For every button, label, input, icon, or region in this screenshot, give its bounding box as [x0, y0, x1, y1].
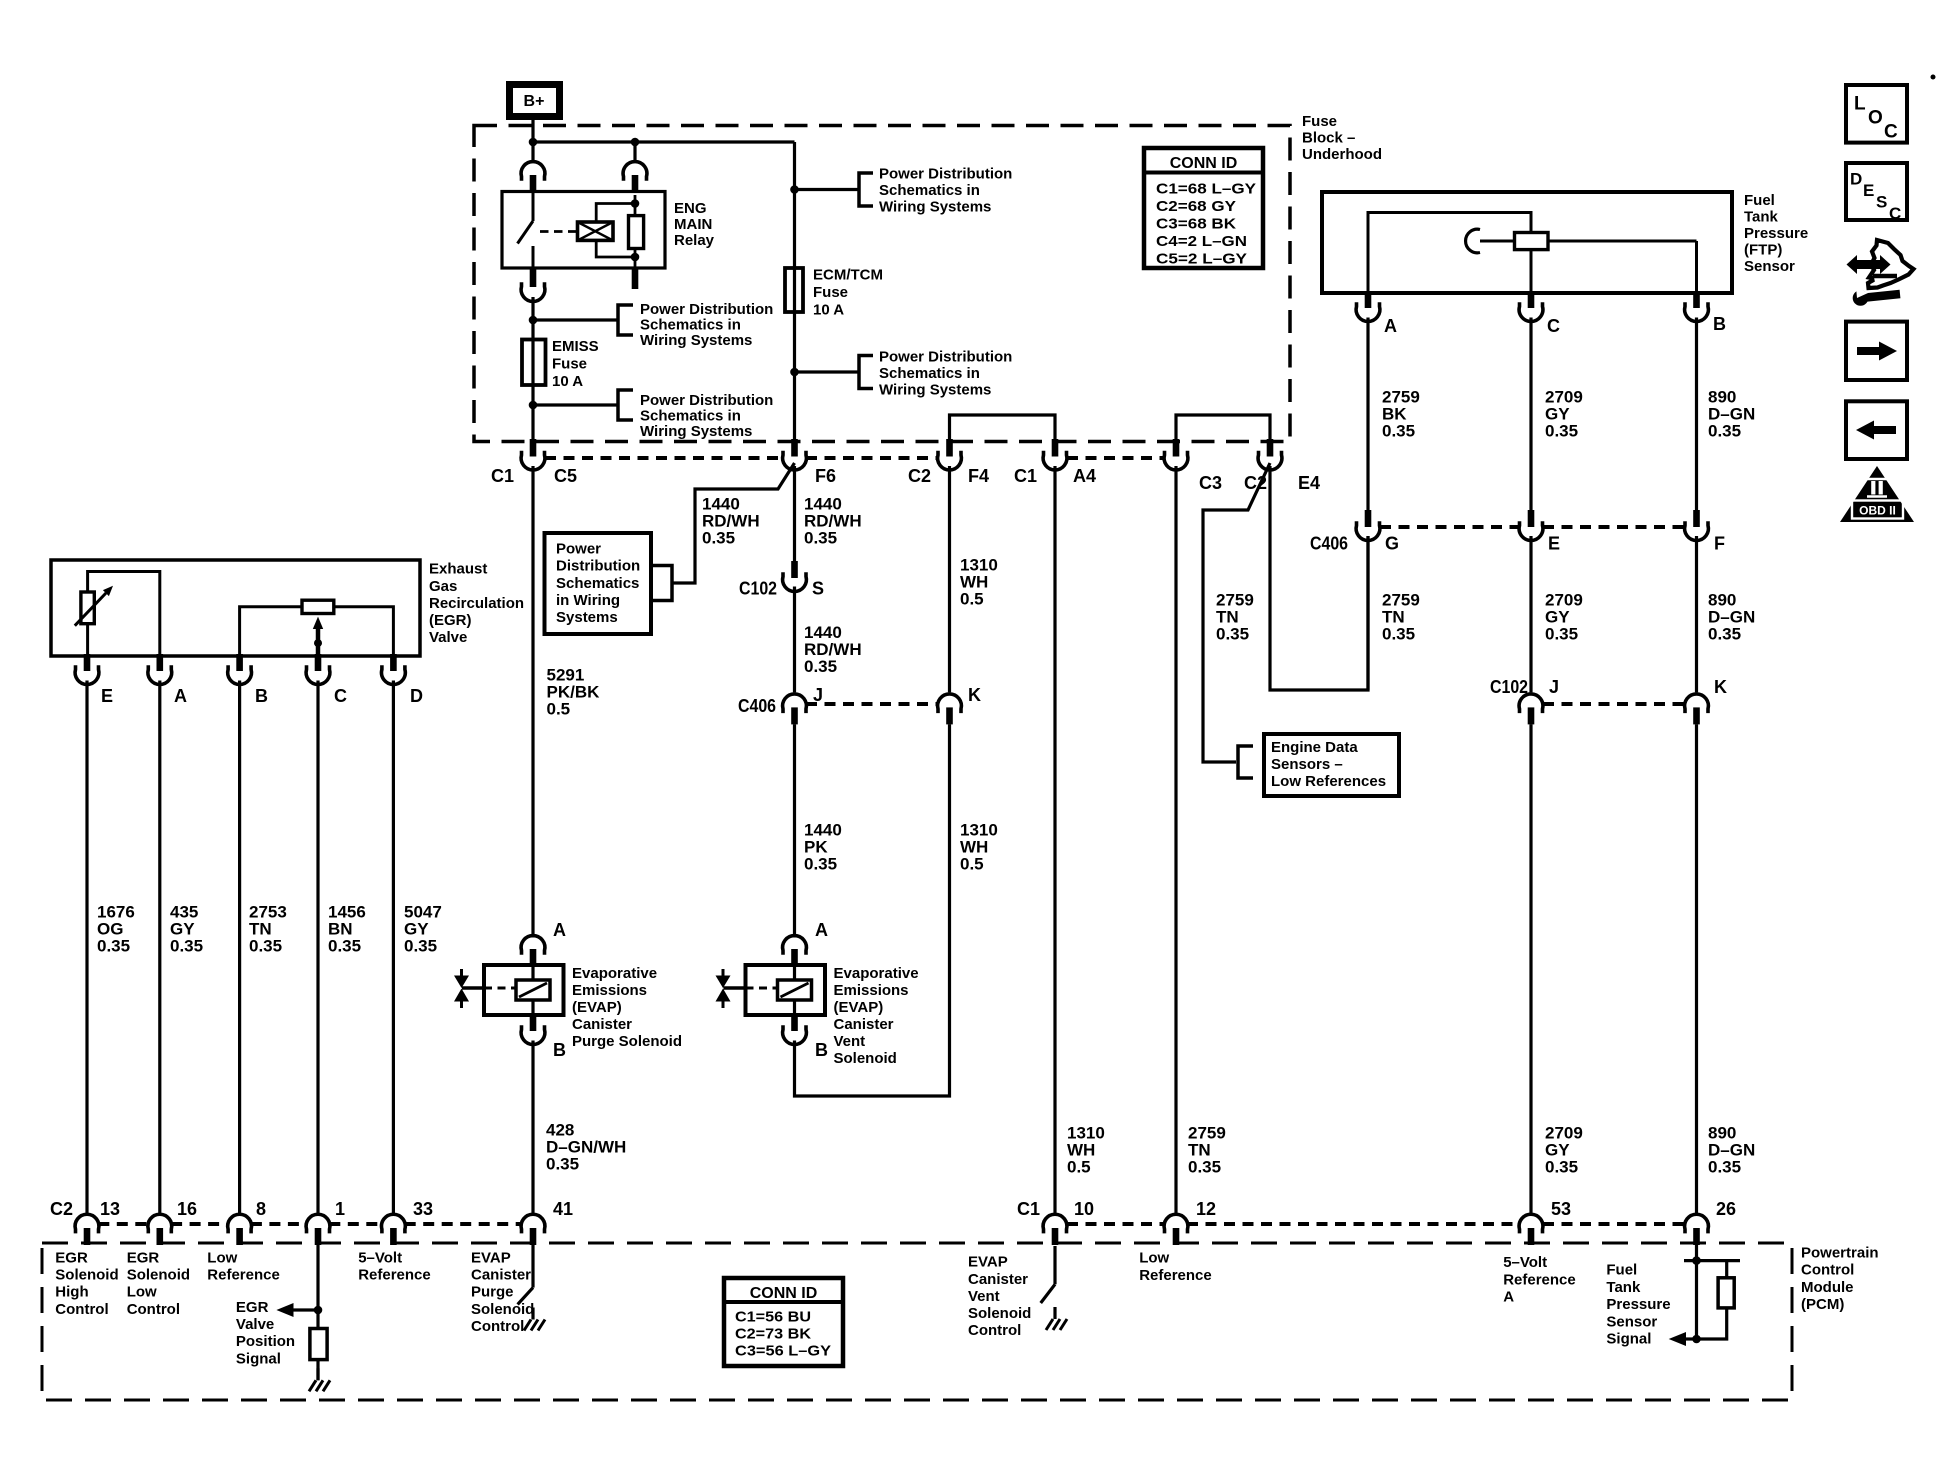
svg-text:Solenoid: Solenoid	[834, 1050, 897, 1067]
svg-text:0.35: 0.35	[1216, 624, 1249, 643]
svg-text:C2=68 GY: C2=68 GY	[1156, 198, 1236, 215]
svg-text:0.5: 0.5	[960, 589, 984, 608]
svg-text:Signal: Signal	[236, 1350, 281, 1367]
svg-text:C2: C2	[50, 1199, 73, 1219]
svg-text:Purge: Purge	[471, 1284, 514, 1301]
svg-text:C5=2 L–GY: C5=2 L–GY	[1156, 251, 1247, 268]
svg-text:C406: C406	[738, 696, 776, 716]
svg-text:K: K	[968, 685, 981, 705]
svg-text:ECM/TCM: ECM/TCM	[813, 266, 883, 283]
svg-text:Module: Module	[1801, 1279, 1854, 1296]
svg-text:Fuse: Fuse	[813, 284, 848, 301]
svg-text:J: J	[1549, 677, 1559, 697]
svg-text:Schematics in: Schematics in	[640, 407, 741, 424]
svg-text:Reference: Reference	[358, 1267, 431, 1284]
svg-text:ENG: ENG	[674, 200, 707, 217]
svg-text:C1: C1	[1017, 1199, 1040, 1219]
svg-text:F6: F6	[815, 466, 836, 486]
svg-text:C: C	[1889, 204, 1901, 223]
svg-text:0.35: 0.35	[1382, 421, 1415, 440]
svg-text:10 A: 10 A	[552, 373, 583, 390]
svg-text:(FTP): (FTP)	[1744, 241, 1782, 258]
svg-text:0.5: 0.5	[547, 700, 571, 719]
svg-text:A: A	[174, 686, 187, 706]
svg-text:A: A	[553, 920, 566, 940]
svg-text:Recirculation: Recirculation	[429, 595, 524, 612]
svg-text:Control: Control	[968, 1322, 1021, 1339]
svg-text:Engine Data: Engine Data	[1271, 739, 1358, 756]
svg-text:Power Distribution: Power Distribution	[879, 166, 1012, 183]
svg-text:G: G	[1385, 534, 1399, 554]
svg-text:EMISS: EMISS	[552, 338, 599, 355]
svg-text:0.35: 0.35	[404, 936, 437, 955]
svg-text:5–Volt: 5–Volt	[1503, 1254, 1547, 1271]
svg-text:Vent: Vent	[834, 1033, 866, 1050]
svg-text:C: C	[334, 686, 347, 706]
svg-text:(PCM): (PCM)	[1801, 1296, 1844, 1313]
svg-text:0.35: 0.35	[1545, 421, 1578, 440]
svg-text:C: C	[1884, 122, 1898, 143]
svg-text:A: A	[815, 920, 828, 940]
svg-text:OBD II: OBD II	[1859, 504, 1896, 518]
svg-text:C5: C5	[554, 466, 577, 486]
svg-text:0.35: 0.35	[170, 936, 203, 955]
svg-text:16: 16	[177, 1199, 197, 1219]
svg-text:Sensor: Sensor	[1606, 1313, 1657, 1330]
svg-text:B: B	[255, 686, 268, 706]
svg-text:(EVAP): (EVAP)	[572, 999, 622, 1016]
svg-text:1: 1	[335, 1199, 345, 1219]
svg-text:Pressure: Pressure	[1744, 225, 1808, 242]
svg-text:Canister: Canister	[471, 1267, 531, 1284]
svg-text:Schematics in: Schematics in	[879, 182, 980, 199]
svg-text:0.35: 0.35	[702, 528, 735, 547]
svg-text:EGR: EGR	[127, 1249, 160, 1266]
svg-text:Wiring Systems: Wiring Systems	[879, 199, 991, 216]
svg-text:Wiring Systems: Wiring Systems	[640, 332, 752, 349]
svg-text:EGR: EGR	[236, 1299, 269, 1316]
svg-text:0.35: 0.35	[804, 657, 837, 676]
svg-text:26: 26	[1716, 1199, 1736, 1219]
svg-text:C102: C102	[1490, 677, 1528, 697]
svg-text:0.35: 0.35	[1545, 1157, 1578, 1176]
svg-text:C1=68 L–GY: C1=68 L–GY	[1156, 181, 1256, 198]
svg-text:CONN ID: CONN ID	[750, 1285, 818, 1302]
svg-text:0.35: 0.35	[1708, 1157, 1741, 1176]
svg-text:53: 53	[1551, 1199, 1571, 1219]
svg-text:Fuel: Fuel	[1744, 192, 1775, 209]
svg-text:EVAP: EVAP	[471, 1249, 511, 1266]
svg-text:0.5: 0.5	[1067, 1157, 1091, 1176]
svg-text:Power: Power	[556, 541, 601, 558]
svg-text:Emissions: Emissions	[834, 982, 909, 999]
svg-text:Control: Control	[1801, 1262, 1854, 1279]
svg-text:Power Distribution: Power Distribution	[640, 392, 773, 409]
svg-text:10 A: 10 A	[813, 301, 844, 318]
svg-text:0.35: 0.35	[1708, 421, 1741, 440]
svg-text:(EVAP): (EVAP)	[834, 999, 884, 1016]
svg-text:S: S	[812, 579, 824, 599]
svg-text:E: E	[101, 686, 113, 706]
svg-text:Vent: Vent	[968, 1288, 1000, 1305]
svg-text:F: F	[1714, 534, 1725, 554]
svg-text:Wiring Systems: Wiring Systems	[879, 381, 991, 398]
svg-text:Evaporative: Evaporative	[834, 965, 919, 982]
svg-text:Evaporative: Evaporative	[572, 965, 657, 982]
svg-text:Tank: Tank	[1744, 208, 1779, 225]
svg-text:Purge Solenoid: Purge Solenoid	[572, 1033, 682, 1050]
svg-text:Power Distribution: Power Distribution	[879, 348, 1012, 365]
svg-text:12: 12	[1196, 1199, 1216, 1219]
svg-text:Reference: Reference	[207, 1267, 280, 1284]
svg-text:Canister: Canister	[834, 1016, 894, 1033]
svg-text:0.35: 0.35	[546, 1154, 579, 1173]
svg-text:0.35: 0.35	[97, 936, 130, 955]
svg-text:Tank: Tank	[1606, 1279, 1641, 1296]
svg-text:Low: Low	[1139, 1250, 1169, 1267]
svg-text:Solenoid: Solenoid	[471, 1301, 534, 1318]
svg-text:Emissions: Emissions	[572, 982, 647, 999]
svg-text:E4: E4	[1298, 473, 1320, 493]
svg-text:Schematics in: Schematics in	[879, 365, 980, 382]
svg-text:Pressure: Pressure	[1606, 1296, 1670, 1313]
svg-text:0.35: 0.35	[1708, 624, 1741, 643]
svg-text:Schematics in: Schematics in	[640, 317, 741, 334]
svg-text:L: L	[1854, 94, 1866, 115]
svg-text:Power Distribution: Power Distribution	[640, 301, 773, 318]
svg-text:B: B	[1713, 314, 1726, 334]
svg-text:0.35: 0.35	[1382, 624, 1415, 643]
svg-text:A4: A4	[1073, 466, 1096, 486]
svg-text:Position: Position	[236, 1333, 295, 1350]
svg-text:0.35: 0.35	[804, 528, 837, 547]
svg-text:Reference: Reference	[1139, 1267, 1212, 1284]
svg-text:MAIN: MAIN	[674, 216, 712, 233]
svg-text:0.35: 0.35	[1188, 1157, 1221, 1176]
svg-text:D: D	[410, 686, 423, 706]
svg-text:C3=68 BK: C3=68 BK	[1156, 216, 1236, 233]
svg-text:C3=56 L–GY: C3=56 L–GY	[735, 1343, 831, 1360]
svg-text:Signal: Signal	[1606, 1331, 1651, 1348]
svg-text:C1: C1	[491, 466, 514, 486]
svg-text:C1=56 BU: C1=56 BU	[735, 1309, 811, 1326]
svg-text:Valve: Valve	[429, 629, 467, 646]
svg-text:CONN ID: CONN ID	[1170, 155, 1238, 172]
svg-text:Underhood: Underhood	[1302, 146, 1382, 163]
svg-text:E: E	[1548, 534, 1560, 554]
svg-text:Control: Control	[127, 1301, 180, 1318]
svg-text:0.5: 0.5	[960, 854, 984, 873]
svg-text:(EGR): (EGR)	[429, 612, 472, 629]
svg-text:Sensors –: Sensors –	[1271, 756, 1343, 773]
svg-text:Canister: Canister	[968, 1271, 1028, 1288]
svg-text:Valve: Valve	[236, 1316, 274, 1333]
svg-text:B: B	[553, 1040, 566, 1060]
svg-text:33: 33	[413, 1199, 433, 1219]
svg-text:C3: C3	[1199, 473, 1222, 493]
svg-text:C4=2 L–GN: C4=2 L–GN	[1156, 233, 1247, 250]
svg-text:Fuse: Fuse	[1302, 113, 1337, 130]
svg-text:Canister: Canister	[572, 1016, 632, 1033]
svg-text:5–Volt: 5–Volt	[358, 1249, 402, 1266]
svg-text:Gas: Gas	[429, 578, 457, 595]
svg-text:Exhaust: Exhaust	[429, 561, 487, 578]
svg-text:41: 41	[553, 1199, 573, 1219]
svg-text:0.35: 0.35	[249, 936, 282, 955]
svg-text:Systems: Systems	[556, 609, 618, 626]
svg-text:K: K	[1714, 677, 1727, 697]
svg-text:Control: Control	[55, 1301, 108, 1318]
svg-text:Schematics: Schematics	[556, 575, 639, 592]
svg-text:C406: C406	[1310, 534, 1348, 554]
svg-text:Distribution: Distribution	[556, 558, 640, 575]
svg-text:C2=73 BK: C2=73 BK	[735, 1326, 811, 1343]
svg-text:C: C	[1547, 316, 1560, 336]
svg-text:0.35: 0.35	[1545, 624, 1578, 643]
svg-text:13: 13	[100, 1199, 120, 1219]
svg-text:F4: F4	[968, 466, 989, 486]
svg-text:B: B	[815, 1040, 828, 1060]
svg-text:Solenoid: Solenoid	[968, 1305, 1031, 1322]
svg-text:Wiring Systems: Wiring Systems	[640, 423, 752, 440]
svg-text:Sensor: Sensor	[1744, 258, 1795, 275]
svg-text:Block –: Block –	[1302, 130, 1355, 147]
svg-text:Powertrain: Powertrain	[1801, 1245, 1879, 1262]
svg-text:Relay: Relay	[674, 232, 715, 249]
svg-text:C102: C102	[739, 579, 777, 599]
svg-text:Low References: Low References	[1271, 773, 1386, 790]
svg-text:EVAP: EVAP	[968, 1254, 1008, 1271]
svg-text:8: 8	[256, 1199, 266, 1219]
svg-text:E: E	[1863, 181, 1874, 200]
svg-text:Fuse: Fuse	[552, 355, 587, 372]
svg-text:0.35: 0.35	[804, 854, 837, 873]
svg-text:EGR: EGR	[55, 1249, 88, 1266]
svg-text:Fuel: Fuel	[1606, 1262, 1637, 1279]
svg-text:in Wiring: in Wiring	[556, 592, 620, 609]
svg-text:B+: B+	[524, 93, 545, 110]
svg-text:Low: Low	[207, 1249, 237, 1266]
svg-text:O: O	[1868, 108, 1883, 129]
svg-text:C2: C2	[908, 466, 931, 486]
svg-text:Solenoid: Solenoid	[127, 1267, 190, 1284]
svg-text:D: D	[1850, 170, 1862, 189]
svg-text:Low: Low	[127, 1284, 157, 1301]
svg-text:A: A	[1384, 316, 1397, 336]
svg-text:Control: Control	[471, 1318, 524, 1335]
svg-text:10: 10	[1074, 1199, 1094, 1219]
svg-text:S: S	[1876, 193, 1887, 212]
svg-text:C1: C1	[1014, 466, 1037, 486]
svg-text:Solenoid: Solenoid	[55, 1267, 118, 1284]
svg-text:High: High	[55, 1284, 88, 1301]
svg-text:0.35: 0.35	[328, 936, 361, 955]
svg-text:A: A	[1503, 1289, 1514, 1306]
svg-text:Reference: Reference	[1503, 1271, 1576, 1288]
